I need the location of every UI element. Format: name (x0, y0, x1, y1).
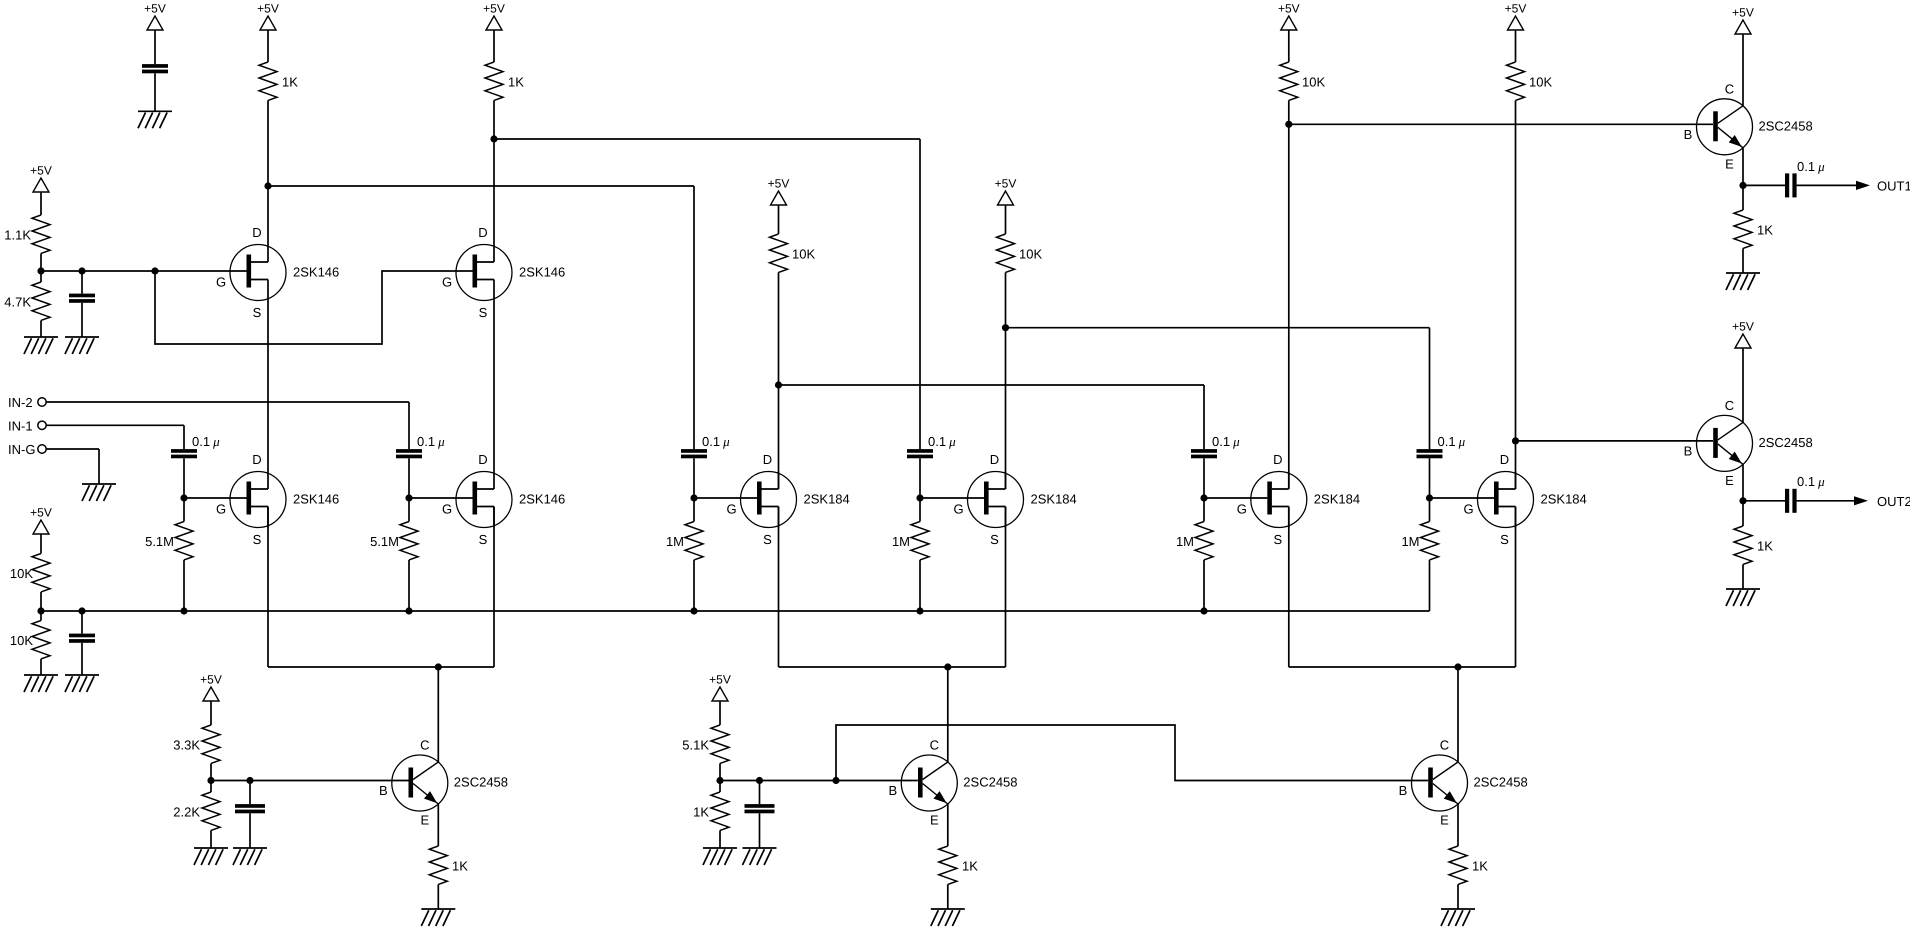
svg-text:1K: 1K (693, 804, 709, 819)
svg-text:G: G (216, 502, 226, 517)
svg-text:10K: 10K (792, 246, 815, 261)
svg-text:0.1μ: 0.1μ (1797, 474, 1825, 489)
wire (1429, 458, 1431, 498)
capacitor 0.1u (OUT1 coupling) (1785, 159, 1825, 198)
jfet 2SK146 (stage1 right) (442, 452, 565, 547)
power +5V supply (input divider) (30, 506, 52, 534)
wire (249, 813, 251, 848)
svg-text:0.1μ: 0.1μ (417, 434, 445, 449)
resistor 1M (gate leak 3) (666, 522, 703, 560)
ground (194, 848, 228, 865)
wire (long bias bus) (41, 610, 1430, 612)
svg-text:+5V: +5V (483, 2, 505, 16)
wire (693, 458, 695, 498)
wire (408, 458, 410, 498)
wire (40, 534, 42, 554)
power +5V supply (stage2 right 10K) (995, 177, 1017, 205)
ground (1726, 589, 1760, 606)
power +5V supply (bias divider) (30, 164, 52, 192)
svg-text:+5V: +5V (1505, 2, 1527, 16)
node junction (1002, 324, 1009, 331)
wire (to OUT2 follower base) (1516, 440, 1714, 442)
svg-text:G: G (726, 502, 736, 517)
power +5V supply (R 1K left) (257, 2, 279, 30)
svg-text:G: G (442, 275, 452, 290)
resistor 5.1M (gate leak 2) (370, 522, 418, 560)
ground (233, 848, 267, 865)
terminal IN-G (8, 442, 46, 457)
wire (1797, 500, 1855, 502)
node junction (78, 267, 85, 274)
wire (183, 458, 185, 498)
jfet 2SK184 (stage2 left) (726, 452, 849, 547)
svg-text:2SC2458: 2SC2458 (1759, 119, 1813, 134)
jfet 2SK146 (stage1 left) (216, 452, 339, 547)
wire (Q2 base) (720, 780, 918, 782)
svg-text:D: D (1273, 452, 1282, 467)
wire (210, 830, 212, 848)
svg-text:E: E (1725, 473, 1734, 488)
wire (1005, 205, 1007, 234)
ground (743, 848, 777, 865)
wire (183, 498, 185, 611)
resistor 5.1M (gate leak 1) (145, 522, 193, 560)
svg-text:10K: 10K (1529, 74, 1552, 89)
wire (408, 498, 410, 611)
capacitor (bias bypass) (69, 294, 95, 303)
wire (bias link to right cascode gate) (155, 271, 473, 344)
terminal IN-2 (8, 395, 46, 410)
wire (779, 385, 1205, 449)
wire (46, 402, 409, 449)
arrow (OUT1) (1856, 181, 1870, 190)
ground (421, 909, 455, 926)
node junction (756, 777, 763, 784)
svg-text:1K: 1K (508, 74, 524, 89)
svg-text:2SK184: 2SK184 (804, 492, 850, 507)
node junction (1512, 437, 1519, 444)
resistor 1K (Q2 divider bottom) (693, 792, 729, 830)
wire (source lead) (1005, 507, 1007, 668)
wire (493, 100, 495, 244)
wire (1742, 348, 1744, 422)
svg-text:0.1μ: 0.1μ (702, 434, 730, 449)
wire (1203, 458, 1205, 498)
capacitor 0.1u (gate coupling 5) (1191, 434, 1240, 458)
jfet 2SK184 (stage3 right) (1463, 452, 1586, 547)
power +5V supply (OUT2 follower) (1732, 320, 1754, 348)
svg-text:+5V: +5V (30, 506, 52, 520)
svg-text:0.1μ: 0.1μ (1438, 434, 1466, 449)
wire (919, 498, 921, 611)
svg-text:S: S (253, 532, 262, 547)
svg-text:1M: 1M (1401, 534, 1419, 549)
wire (494, 139, 920, 449)
wire (1457, 884, 1459, 909)
svg-text:OUT1: OUT1 (1877, 179, 1910, 194)
svg-text:E: E (930, 813, 939, 828)
ground (65, 675, 99, 692)
resistor 2.2K (173, 792, 220, 830)
node junction (1739, 497, 1746, 504)
wire (947, 667, 949, 762)
svg-text:4.7K: 4.7K (4, 294, 31, 309)
wire (1288, 100, 1290, 489)
node junction (435, 663, 442, 670)
wire (source lead) (778, 507, 780, 668)
svg-text:1K: 1K (1472, 858, 1488, 873)
svg-text:2SK146: 2SK146 (519, 265, 565, 280)
svg-text:+5V: +5V (709, 673, 731, 687)
svg-text:C: C (1725, 82, 1734, 97)
node junction (gate node) (1426, 494, 1433, 501)
svg-text:2SC2458: 2SC2458 (1474, 775, 1528, 790)
svg-text:2SK146: 2SK146 (293, 492, 339, 507)
wire (gate lead) (184, 497, 247, 499)
resistor 10K (stage3 right drain) (1507, 62, 1553, 100)
wire (81, 611, 83, 634)
svg-text:1M: 1M (666, 534, 684, 549)
svg-text:S: S (1500, 532, 1509, 547)
wire (source lead) (1288, 507, 1290, 668)
wire (81, 643, 83, 675)
power +5V supply (Q1 divider) (200, 673, 222, 701)
svg-text:G: G (216, 275, 226, 290)
wire (210, 701, 212, 725)
svg-text:S: S (479, 305, 488, 320)
svg-text:IN-2: IN-2 (8, 395, 33, 410)
node junction (207, 777, 214, 784)
node junction (716, 777, 723, 784)
svg-text:B: B (1684, 127, 1693, 142)
svg-text:+5V: +5V (1732, 6, 1754, 20)
svg-text:E: E (1440, 813, 1449, 828)
wire (40, 659, 42, 675)
node junction (151, 267, 158, 274)
node junction (bus) (180, 607, 187, 614)
wire (947, 804, 949, 846)
svg-text:1K: 1K (1757, 538, 1773, 553)
wire (1742, 185, 1744, 273)
node junction (bus) (78, 607, 85, 614)
wire (1742, 148, 1744, 186)
resistor 1K (Q2 emitter) (939, 846, 978, 884)
ground (703, 848, 737, 865)
wire (719, 763, 721, 792)
wire (437, 667, 439, 762)
svg-text:3.3K: 3.3K (173, 737, 200, 752)
svg-text:S: S (763, 532, 772, 547)
node junction (gate node) (690, 494, 697, 501)
resistor 4.7K (4, 282, 50, 320)
svg-text:+5V: +5V (1278, 2, 1300, 16)
transistor 2SC2458 (Q2 tail current source) (888, 738, 1017, 828)
resistor 1K (Q1 emitter) (429, 846, 468, 884)
svg-text:0.1μ: 0.1μ (1212, 434, 1240, 449)
wire (source lead) (267, 507, 269, 668)
svg-text:2SK184: 2SK184 (1541, 492, 1587, 507)
svg-text:5.1K: 5.1K (682, 737, 709, 752)
label OUT2 (1877, 494, 1910, 509)
resistor 10K (input divider top) (10, 554, 50, 592)
svg-text:+5V: +5V (200, 673, 222, 687)
wire (46, 425, 184, 449)
svg-text:OUT2: OUT2 (1877, 494, 1910, 509)
svg-text:D: D (990, 452, 999, 467)
node junction (drain tap left) (264, 182, 271, 189)
wire (1742, 34, 1744, 106)
wire (source lead) (493, 507, 495, 668)
wire (1743, 500, 1785, 502)
svg-text:1.1K: 1.1K (4, 227, 31, 242)
svg-text:5.1M: 5.1M (145, 534, 174, 549)
svg-text:2SK184: 2SK184 (1314, 492, 1360, 507)
resistor 1M (gate leak 4) (892, 522, 929, 560)
node junction (gate node) (180, 494, 187, 501)
capacitor (divider bypass) (69, 634, 95, 643)
node junction (drain tap right) (490, 135, 497, 142)
node junction (gate node) (405, 494, 412, 501)
wire (759, 781, 761, 805)
wire (947, 884, 949, 909)
node junction (bus) (1200, 607, 1207, 614)
wire (719, 701, 721, 725)
capacitor 0.1u (gate coupling 6) (1417, 434, 1466, 458)
wire (267, 301, 269, 472)
node junction (bus) (916, 607, 923, 614)
resistor 1K (Q3 emitter) (1449, 846, 1488, 884)
capacitor 0.1u (gate coupling 3) (681, 434, 730, 458)
wire (778, 272, 780, 489)
resistor 1K (OUT2 load) (1734, 526, 1773, 564)
svg-text:B: B (379, 783, 388, 798)
svg-text:2SK146: 2SK146 (519, 492, 565, 507)
svg-text:C: C (420, 738, 429, 753)
node junction (bias node) (37, 267, 44, 274)
wire (437, 884, 439, 909)
wire (1429, 498, 1431, 611)
resistor 10K (stage2 left drain) (770, 234, 816, 272)
wire (1743, 184, 1785, 186)
wire (gate lead) (1430, 497, 1495, 499)
jfet 2SK184 (stage2 right) (953, 452, 1076, 547)
wire (759, 813, 761, 848)
ground (24, 675, 58, 692)
wire (1742, 501, 1744, 589)
node junction (1285, 121, 1292, 128)
ground (65, 337, 99, 354)
ground (82, 484, 116, 501)
node junction (bus) (690, 607, 697, 614)
wire (40, 192, 42, 215)
wire (81, 271, 83, 294)
wire (1203, 498, 1205, 611)
svg-text:S: S (1273, 532, 1282, 547)
wire (1288, 30, 1290, 62)
wire (1457, 667, 1459, 762)
svg-text:D: D (1500, 452, 1509, 467)
jfet 2SK184 (stage3 left) (1237, 452, 1360, 547)
wire (to OUT1 follower base) (1289, 123, 1713, 125)
terminal IN-1 (8, 419, 46, 434)
node junction (1454, 663, 1461, 670)
wire (1006, 328, 1430, 449)
svg-text:G: G (953, 502, 963, 517)
resistor 3.3K (173, 725, 220, 763)
wire (stage3 tail) (1289, 666, 1516, 668)
wire (81, 303, 83, 337)
wire (source lead) (1515, 507, 1517, 668)
wire (267, 30, 269, 62)
svg-text:+5V: +5V (257, 2, 279, 16)
svg-text:+5V: +5V (30, 164, 52, 178)
svg-text:1K: 1K (962, 858, 978, 873)
svg-text:2SC2458: 2SC2458 (1759, 435, 1813, 450)
wire (267, 100, 269, 244)
resistor 10K (stage2 right drain) (997, 234, 1043, 272)
svg-text:C: C (1440, 738, 1449, 753)
resistor 1K (OUT1 load) (1734, 210, 1773, 248)
svg-text:B: B (888, 783, 897, 798)
svg-text:E: E (1725, 157, 1734, 172)
ground (138, 111, 172, 128)
svg-text:IN-G: IN-G (8, 442, 35, 457)
svg-text:+5V: +5V (768, 177, 790, 191)
svg-text:C: C (1725, 398, 1734, 413)
wire (493, 301, 495, 472)
svg-text:0.1μ: 0.1μ (1797, 159, 1825, 174)
svg-text:G: G (1463, 502, 1473, 517)
node junction (bus) (37, 607, 44, 614)
svg-text:1M: 1M (1176, 534, 1194, 549)
svg-text:1K: 1K (1757, 222, 1773, 237)
svg-text:S: S (253, 305, 262, 320)
power +5V supply (top-left bypass) (144, 2, 166, 30)
svg-text:+5V: +5V (995, 177, 1017, 191)
wire (stage1 tail) (268, 666, 494, 668)
transistor 2SC2458 (Q3 tail current source) (1399, 738, 1528, 828)
wire (1515, 30, 1517, 62)
transistor 2SC2458 (OUT2 follower) (1684, 398, 1813, 488)
svg-text:1K: 1K (282, 74, 298, 89)
wire (268, 186, 694, 449)
svg-text:10K: 10K (1302, 74, 1325, 89)
svg-text:2SC2458: 2SC2458 (454, 775, 508, 790)
resistor 1K (stage1 right drain) (485, 62, 524, 100)
wire (46, 449, 99, 484)
wire (719, 830, 721, 848)
capacitor 0.1u (OUT2 coupling) (1785, 474, 1825, 513)
resistor 1M (gate leak 5) (1176, 522, 1213, 560)
power +5V supply (stage3 left 10K) (1278, 2, 1300, 30)
transistor 2SC2458 (Q1 tail current source) (379, 738, 508, 828)
wire (1005, 272, 1007, 489)
wire (693, 498, 695, 611)
wire (210, 763, 212, 792)
capacitor (Q1 base bypass) (235, 804, 265, 813)
transistor 2SC2458 (OUT1 follower) (1684, 82, 1813, 172)
label OUT1 (1877, 179, 1910, 194)
ground (1441, 909, 1475, 926)
wire (gate lead) (409, 497, 473, 499)
capacitor (Q2 base bypass) (745, 804, 775, 813)
svg-text:B: B (1399, 783, 1408, 798)
arrow (OUT2) (1854, 496, 1868, 505)
svg-text:2.2K: 2.2K (173, 804, 200, 819)
wire (base link to Q3) (836, 725, 1428, 781)
wire (437, 804, 439, 846)
svg-text:2SK146: 2SK146 (293, 265, 339, 280)
node junction (775, 381, 782, 388)
svg-text:B: B (1684, 444, 1693, 459)
svg-text:E: E (420, 813, 429, 828)
svg-text:10K: 10K (10, 566, 33, 581)
node junction (gate node) (916, 494, 923, 501)
wire (40, 592, 42, 621)
wire (40, 253, 42, 282)
ground (1726, 273, 1760, 290)
power +5V supply (OUT1 follower) (1732, 6, 1754, 34)
svg-text:1K: 1K (452, 858, 468, 873)
wire (1797, 184, 1857, 186)
power +5V supply (stage2 left 10K) (768, 177, 790, 205)
wire (154, 30, 156, 64)
wire (493, 30, 495, 62)
node junction (832, 777, 839, 784)
wire (154, 73, 156, 111)
wire (gate lead) (920, 497, 984, 499)
wire (bias rail) (41, 270, 247, 272)
resistor 10K (stage3 left drain) (1280, 62, 1326, 100)
svg-text:G: G (1237, 502, 1247, 517)
capacitor 0.1u (gate coupling 1) (171, 434, 220, 458)
svg-text:S: S (479, 532, 488, 547)
svg-text:D: D (252, 452, 261, 467)
svg-text:10K: 10K (10, 633, 33, 648)
capacitor 0.1u (gate coupling 2) (396, 434, 445, 458)
wire (249, 781, 251, 805)
wire (Q1 base) (211, 780, 409, 782)
svg-text:1M: 1M (892, 534, 910, 549)
resistor 10K (input divider bottom) (10, 621, 50, 659)
power +5V supply (Q2 divider) (709, 673, 731, 701)
node junction (246, 777, 253, 784)
node junction (1739, 182, 1746, 189)
capacitor 0.1u (gate coupling 4) (907, 434, 956, 458)
svg-text:D: D (763, 452, 772, 467)
svg-text:2SC2458: 2SC2458 (963, 775, 1017, 790)
wire (1742, 464, 1744, 500)
wire (778, 205, 780, 234)
wire (stage2 tail) (779, 666, 1006, 668)
resistor 1M (gate leak 6) (1401, 522, 1438, 560)
svg-text:0.1μ: 0.1μ (192, 434, 220, 449)
power +5V supply (R 1K right) (483, 2, 505, 30)
wire (gate lead) (694, 497, 757, 499)
svg-text:0.1μ: 0.1μ (928, 434, 956, 449)
svg-text:C: C (930, 738, 939, 753)
svg-text:IN-1: IN-1 (8, 419, 33, 434)
node junction (944, 663, 951, 670)
power +5V supply (stage3 right 10K) (1505, 2, 1527, 30)
svg-text:10K: 10K (1019, 246, 1042, 261)
svg-text:5.1M: 5.1M (370, 534, 399, 549)
wire (1457, 804, 1459, 846)
wire (40, 320, 42, 337)
node junction (gate node) (1200, 494, 1207, 501)
jfet 2SK146 (upper left cascode) (216, 225, 339, 320)
wire (gate lead) (1204, 497, 1267, 499)
